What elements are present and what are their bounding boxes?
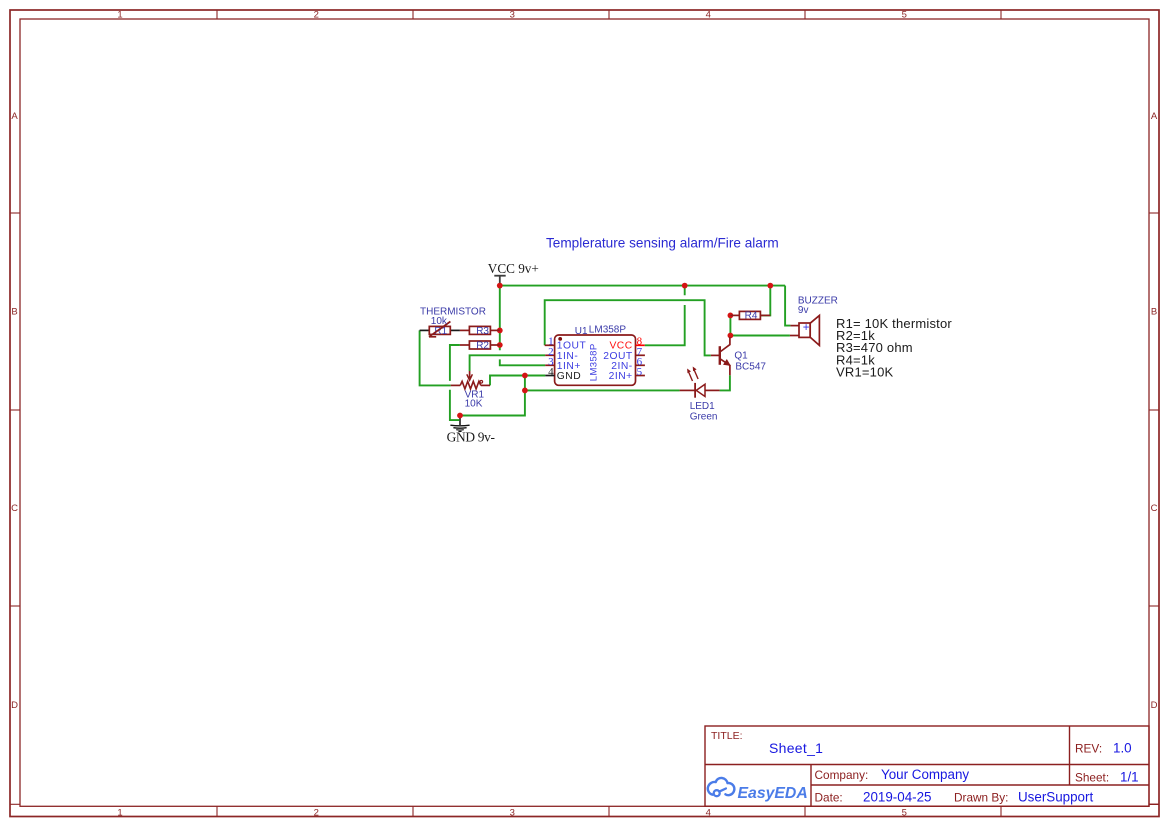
junction LED row bbox=[522, 388, 528, 394]
pin 4 bbox=[545, 375, 554, 377]
svg-text:VCC 9v+: VCC 9v+ bbox=[488, 261, 539, 276]
svg-text:10K: 10K bbox=[465, 398, 483, 409]
wire to pin 3 bbox=[500, 359, 545, 365]
notes text bbox=[836, 316, 952, 380]
junction rail / R4 riser bbox=[767, 283, 773, 289]
svg-text:1/1: 1/1 bbox=[1120, 770, 1139, 785]
pin name labels bbox=[557, 341, 633, 383]
title block bbox=[705, 726, 1159, 806]
svg-text:4: 4 bbox=[706, 807, 711, 818]
wire gnd column bbox=[460, 376, 525, 416]
svg-text:2019-04-25: 2019-04-25 bbox=[863, 790, 932, 805]
EasyEDA logo bbox=[708, 778, 808, 802]
wire R2 left to ground bbox=[450, 345, 460, 420]
svg-text:U1: U1 bbox=[575, 326, 588, 337]
svg-text:LM358P: LM358P bbox=[588, 343, 599, 381]
pin 5 bbox=[636, 375, 645, 377]
svg-text:5: 5 bbox=[637, 366, 643, 378]
svg-text:2: 2 bbox=[314, 807, 319, 818]
wire R4 to collector bbox=[729, 315, 731, 335]
svg-text:LM358P: LM358P bbox=[589, 325, 627, 336]
svg-text:1.0: 1.0 bbox=[1113, 741, 1132, 756]
junction R2 right bbox=[497, 342, 503, 348]
wire rail to buzzer plus bbox=[785, 286, 790, 326]
wires bbox=[420, 286, 791, 421]
wire pin 2 to VR1 wiper bbox=[470, 355, 546, 371]
pin 8 bbox=[636, 344, 645, 346]
svg-text:VR1=10K: VR1=10K bbox=[836, 365, 894, 380]
pin 1 bbox=[545, 344, 555, 346]
svg-text:Templerature sensing alarm/Fir: Templerature sensing alarm/Fire alarm bbox=[546, 235, 779, 250]
svg-text:D: D bbox=[1151, 700, 1158, 711]
resistor R2 bbox=[460, 341, 500, 352]
resistor R3 bbox=[460, 326, 500, 337]
svg-text:Sheet_1: Sheet_1 bbox=[769, 740, 823, 756]
svg-text:D: D bbox=[11, 700, 18, 711]
wire R1 left to VR1 left bbox=[420, 330, 451, 385]
transistor Q1 bbox=[711, 337, 767, 375]
svg-text:1: 1 bbox=[117, 807, 122, 818]
svg-text:5: 5 bbox=[902, 807, 907, 818]
svg-text:GND 9v-: GND 9v- bbox=[447, 429, 495, 444]
svg-text:EasyEDA: EasyEDA bbox=[738, 785, 808, 802]
svg-text:Sheet:: Sheet: bbox=[1075, 771, 1109, 785]
wire pin8 to rail bbox=[645, 286, 685, 346]
svg-text:2: 2 bbox=[314, 10, 319, 21]
svg-text:5: 5 bbox=[902, 10, 907, 21]
wire LED cathode row bbox=[525, 389, 680, 391]
svg-text:BC547: BC547 bbox=[735, 361, 766, 372]
junction at ground bbox=[457, 413, 463, 419]
svg-text:R2: R2 bbox=[476, 341, 489, 352]
pin 7 bbox=[636, 354, 645, 356]
junction R4 left bbox=[728, 313, 734, 319]
svg-text:C: C bbox=[1151, 503, 1158, 514]
svg-text:A: A bbox=[1151, 111, 1158, 122]
svg-text:TITLE:: TITLE: bbox=[711, 730, 743, 742]
pin 3 bbox=[545, 364, 554, 366]
wire pin1 to Q1 base bbox=[545, 300, 711, 355]
svg-text:A: A bbox=[11, 111, 18, 122]
pin 6 bbox=[636, 364, 645, 366]
wire R4 to rail bbox=[761, 286, 771, 316]
svg-text:C: C bbox=[11, 503, 18, 514]
thermistor R1 bbox=[420, 307, 486, 338]
svg-text:Your Company: Your Company bbox=[881, 767, 969, 782]
svg-text:REV:: REV: bbox=[1075, 742, 1102, 756]
potentiometer VR1 bbox=[451, 371, 490, 409]
wire collector to buzzer minus bbox=[730, 335, 790, 337]
junction pin4 / gnd column bbox=[522, 373, 528, 379]
svg-text:3: 3 bbox=[510, 10, 515, 21]
svg-text:Date:: Date: bbox=[815, 791, 843, 805]
svg-text:3: 3 bbox=[510, 807, 515, 818]
svg-text:B: B bbox=[1151, 307, 1157, 318]
junction rail / pin8 riser bbox=[682, 283, 688, 289]
ground bbox=[447, 416, 495, 445]
svg-text:Q1: Q1 bbox=[734, 350, 748, 361]
svg-text:2IN+: 2IN+ bbox=[609, 371, 633, 382]
wire pin 4 to VR1 right bbox=[490, 376, 545, 386]
svg-text:B: B bbox=[11, 307, 17, 318]
svg-text:R3: R3 bbox=[476, 326, 489, 337]
junction at VCC rail bbox=[497, 283, 503, 289]
wire VCC rail bbox=[500, 285, 785, 287]
wire VCC column to R3/R2 bbox=[499, 286, 501, 351]
svg-text:Green: Green bbox=[690, 412, 718, 423]
svg-text:GND: GND bbox=[557, 371, 581, 382]
svg-text:9v: 9v bbox=[798, 305, 809, 316]
wire emitter to LED anode bbox=[720, 375, 730, 390]
svg-text:4: 4 bbox=[706, 10, 711, 21]
junction R3 right bbox=[497, 328, 503, 334]
op-amp U1 LM358P bbox=[545, 325, 645, 386]
power flag VCC bbox=[488, 261, 539, 286]
buzzer bbox=[790, 295, 838, 345]
svg-text:Company:: Company: bbox=[815, 768, 869, 782]
junction Q1 collector bbox=[728, 333, 734, 339]
svg-text:Drawn By:: Drawn By: bbox=[954, 791, 1008, 805]
svg-text:4: 4 bbox=[548, 366, 554, 378]
resistor R4 bbox=[730, 311, 770, 322]
svg-text:R4: R4 bbox=[745, 311, 758, 322]
svg-text:+: + bbox=[803, 322, 810, 334]
pin 2 bbox=[545, 354, 554, 356]
svg-text:UserSupport: UserSupport bbox=[1018, 790, 1093, 805]
LED1 bbox=[680, 367, 720, 423]
svg-text:10k: 10k bbox=[431, 316, 448, 327]
svg-text:1: 1 bbox=[117, 10, 122, 21]
